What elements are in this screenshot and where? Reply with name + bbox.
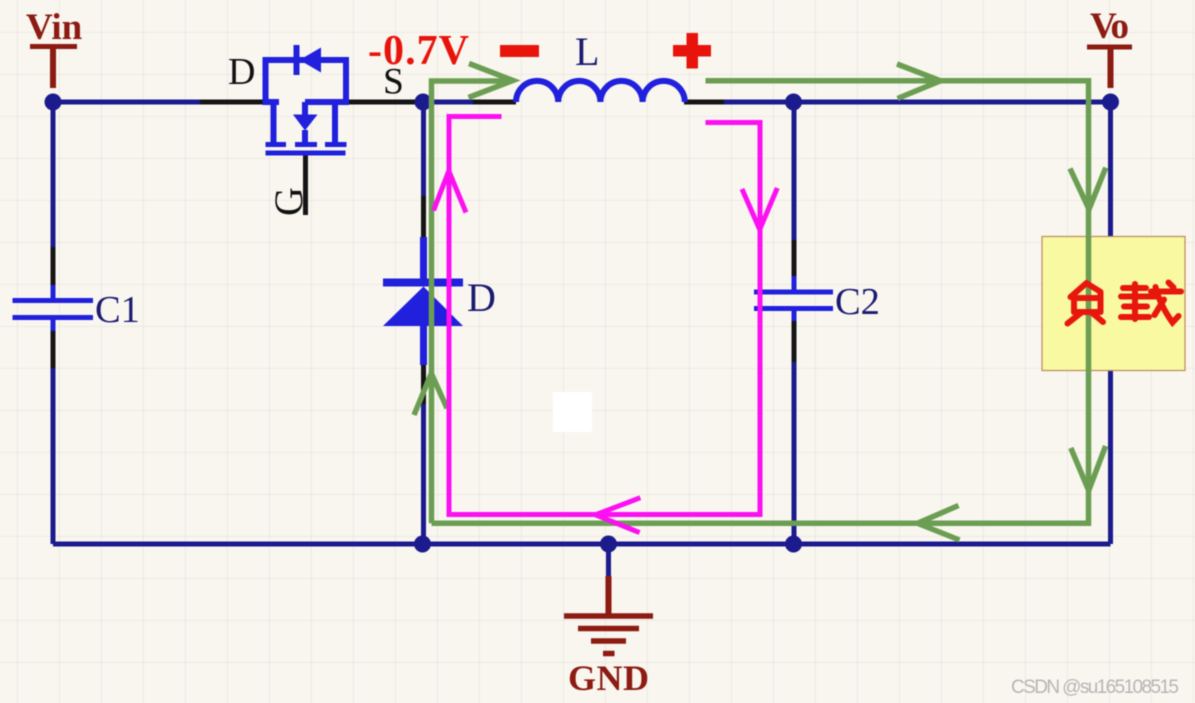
svg-text:G: G	[266, 187, 311, 216]
svg-text:CSDN @su165108515: CSDN @su165108515	[1011, 677, 1179, 698]
svg-text:Vo: Vo	[1090, 6, 1129, 47]
svg-text:GND: GND	[568, 658, 649, 698]
svg-text:C2: C2	[835, 281, 880, 323]
svg-text:D: D	[467, 275, 496, 320]
svg-text:L: L	[575, 29, 599, 74]
svg-text:D: D	[228, 51, 255, 93]
svg-text:Vin: Vin	[26, 7, 83, 48]
svg-text:-0.7V: -0.7V	[368, 28, 469, 74]
svg-text:C1: C1	[95, 289, 140, 331]
